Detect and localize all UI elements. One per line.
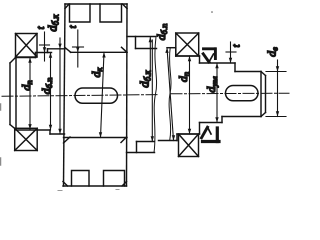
seal bottom lip V left stroke — [202, 127, 208, 138]
shaft left end face — [9, 63, 11, 125]
gear wheel right face — [126, 4, 129, 186]
label dупл — [204, 76, 219, 92]
dimension dупл arrows — [215, 63, 218, 123]
journal and dб.п bottom surface — [16, 129, 50, 131]
dimension dб.п right line — [167, 48, 174, 141]
rim top left corner chamfer — [65, 4, 69, 9]
dimension dв extension top — [266, 71, 286, 73]
label dп right — [176, 72, 191, 82]
output end chamfer edge line — [260, 72, 262, 117]
dimension dб.к right upper arrow — [149, 37, 152, 42]
dimension dк line — [101, 52, 105, 137]
label dб.к top — [46, 14, 61, 32]
bearing C cross — [176, 33, 199, 56]
dб.п section top surface before break — [136, 48, 157, 50]
output end dв bottom surface — [222, 116, 261, 118]
svg-text:t: t — [68, 25, 79, 28]
step face dп to dб.п top — [35, 53, 37, 58]
dimension dв extension bottom — [266, 116, 286, 118]
bearing D cross — [179, 134, 199, 157]
bearing C outer box — [176, 33, 199, 56]
break wave left view — [154, 37, 157, 153]
step face dупл to dв bottom — [221, 117, 223, 123]
journal dп right bottom surface — [177, 133, 200, 135]
dimension t2 line and arrow — [77, 30, 79, 67]
shoulder dб.к right top surface and extension — [127, 36, 156, 38]
dimension dп arrows — [28, 58, 31, 130]
seal top lip V left stroke — [203, 54, 209, 62]
gear web recess top left — [70, 4, 91, 22]
step face dб.п to dп right top — [175, 48, 177, 56]
svg-text:dб.п: dб.п — [39, 78, 54, 95]
seal bottom lip V right stroke — [208, 127, 212, 134]
label dб.п right top — [154, 24, 169, 41]
step face dб.п to dб.к bottom — [49, 130, 51, 134]
shoulder dб.к top surface — [48, 48, 66, 50]
rim bottom right corner chamfer — [122, 182, 127, 187]
step face dб.п to dб.к top — [47, 49, 49, 53]
centerline right view — [171, 92, 289, 95]
label dб.к right — [137, 69, 153, 87]
rim top right corner chamfer — [123, 4, 128, 9]
dimension dб.п right arrows — [165, 48, 175, 141]
svg-text:dп: dп — [176, 72, 191, 82]
label dп left — [19, 80, 34, 90]
scan speck left edge upper — [0, 104, 2, 110]
journal dп top surface — [16, 57, 36, 59]
label t2 — [68, 25, 79, 28]
break wave right view — [169, 48, 171, 141]
bearing A cross — [16, 34, 38, 58]
dimension dупл line — [216, 63, 218, 123]
dimension dп right line — [189, 56, 191, 134]
dimension t2 tick — [73, 46, 84, 48]
dimension dб.п line — [50, 53, 52, 131]
scan speck left edge lower — [0, 158, 2, 165]
bearing A outer box — [16, 34, 38, 58]
step face dп to dупл top — [199, 56, 201, 63]
dimension t1 line and arrow — [44, 32, 46, 61]
step face dб.п to dп right bottom — [176, 134, 178, 141]
step face dб.к to dб.п left view bottom — [136, 142, 138, 153]
step face dб.к to dб.п left view top — [135, 37, 137, 49]
journal dп right top surface — [176, 55, 200, 57]
seal bottom symbol — [203, 128, 220, 142]
dimension dб.к left arrows — [58, 44, 61, 134]
dimension dп right arrows — [188, 56, 191, 134]
dimension dк arrows — [99, 52, 106, 137]
dimension dб.п arrows — [49, 53, 52, 131]
output end face — [265, 76, 267, 113]
dimension t3 line and arrow — [230, 42, 232, 63]
svg-text:dп: dп — [19, 80, 34, 90]
dб.п right bottom surface — [159, 140, 178, 142]
scan speck top middle — [211, 11, 213, 13]
seal top symbol — [204, 49, 217, 59]
seal seat dупл top surface — [200, 62, 236, 64]
dimension dв line — [277, 60, 279, 117]
shoulder dб.к bottom surface — [50, 133, 65, 135]
output end bottom chamfer — [261, 113, 266, 117]
dimension dб.п right-of-wheel line lower — [151, 40, 153, 142]
seal seat dупл bottom surface — [200, 122, 223, 124]
label dб.п left — [39, 78, 54, 95]
svg-text:dупл: dупл — [204, 76, 219, 92]
dimension dв arrows — [276, 66, 279, 116]
keyway slot right — [226, 86, 259, 101]
shaft left end top chamfer — [10, 57, 16, 63]
wheel seat dк bottom line — [64, 137, 128, 139]
shaft left end chamfer edge line — [15, 58, 17, 130]
svg-text:t: t — [36, 26, 47, 29]
wheel seat dк top line — [71, 51, 128, 53]
rim bottom left corner chamfer — [63, 182, 68, 187]
dimension t3 tick — [226, 51, 236, 53]
gear web recess top right — [100, 4, 122, 22]
dimension dп line — [29, 58, 31, 130]
dб.п right top surface — [167, 47, 176, 49]
dб.п section bottom surface before break — [137, 141, 155, 143]
gear wheel rim bottom — [63, 185, 127, 187]
output end top chamfer — [261, 72, 266, 76]
wheel hub bore chamfer bottom right — [121, 137, 127, 143]
centerline left view — [2, 95, 158, 97]
wheel hub bore chamfer bottom left — [64, 137, 71, 143]
label t1 — [36, 26, 47, 29]
svg-text:dб.п: dб.п — [154, 24, 169, 41]
bearing B cross — [15, 128, 38, 150]
svg-text:dб.к: dб.к — [137, 69, 153, 87]
dimension t1 tick — [40, 44, 50, 46]
keyway slot left — [75, 88, 118, 103]
scan speck bottom left — [58, 190, 62, 192]
dimension dб.к right line upper — [149, 37, 151, 76]
label t3 — [232, 44, 243, 47]
bearing D outer box — [179, 134, 199, 157]
wheel hub bore chamfer top right — [122, 47, 128, 52]
svg-text:dв: dв — [265, 47, 280, 57]
dimension dб.п right-of-wheel lower arrow — [151, 136, 154, 141]
gear web recess bottom right — [104, 171, 125, 187]
dimension dб.к left line — [59, 38, 61, 134]
scan speck bottom middle — [116, 189, 119, 191]
svg-text:t: t — [232, 44, 243, 47]
label dв — [265, 47, 280, 57]
gear wheel rim top — [65, 3, 127, 5]
gear wheel left face — [64, 4, 66, 186]
gear web recess bottom left — [72, 171, 90, 187]
label dк — [89, 66, 104, 77]
step face dупл to dв top — [234, 63, 236, 72]
step face dп to dупл bottom — [199, 123, 201, 135]
dб.п top surface — [36, 52, 52, 54]
shoulder dб.к right bottom surface and extension — [127, 152, 155, 154]
svg-text:dб.к: dб.к — [46, 14, 61, 32]
shaft left end bottom chamfer — [10, 125, 16, 130]
bearing B outer box — [15, 128, 38, 150]
wheel hub bore chamfer top left — [65, 48, 71, 53]
seal top lip V right stroke — [209, 54, 214, 62]
output end dв top surface — [235, 71, 261, 73]
svg-text:dк: dк — [89, 66, 104, 77]
